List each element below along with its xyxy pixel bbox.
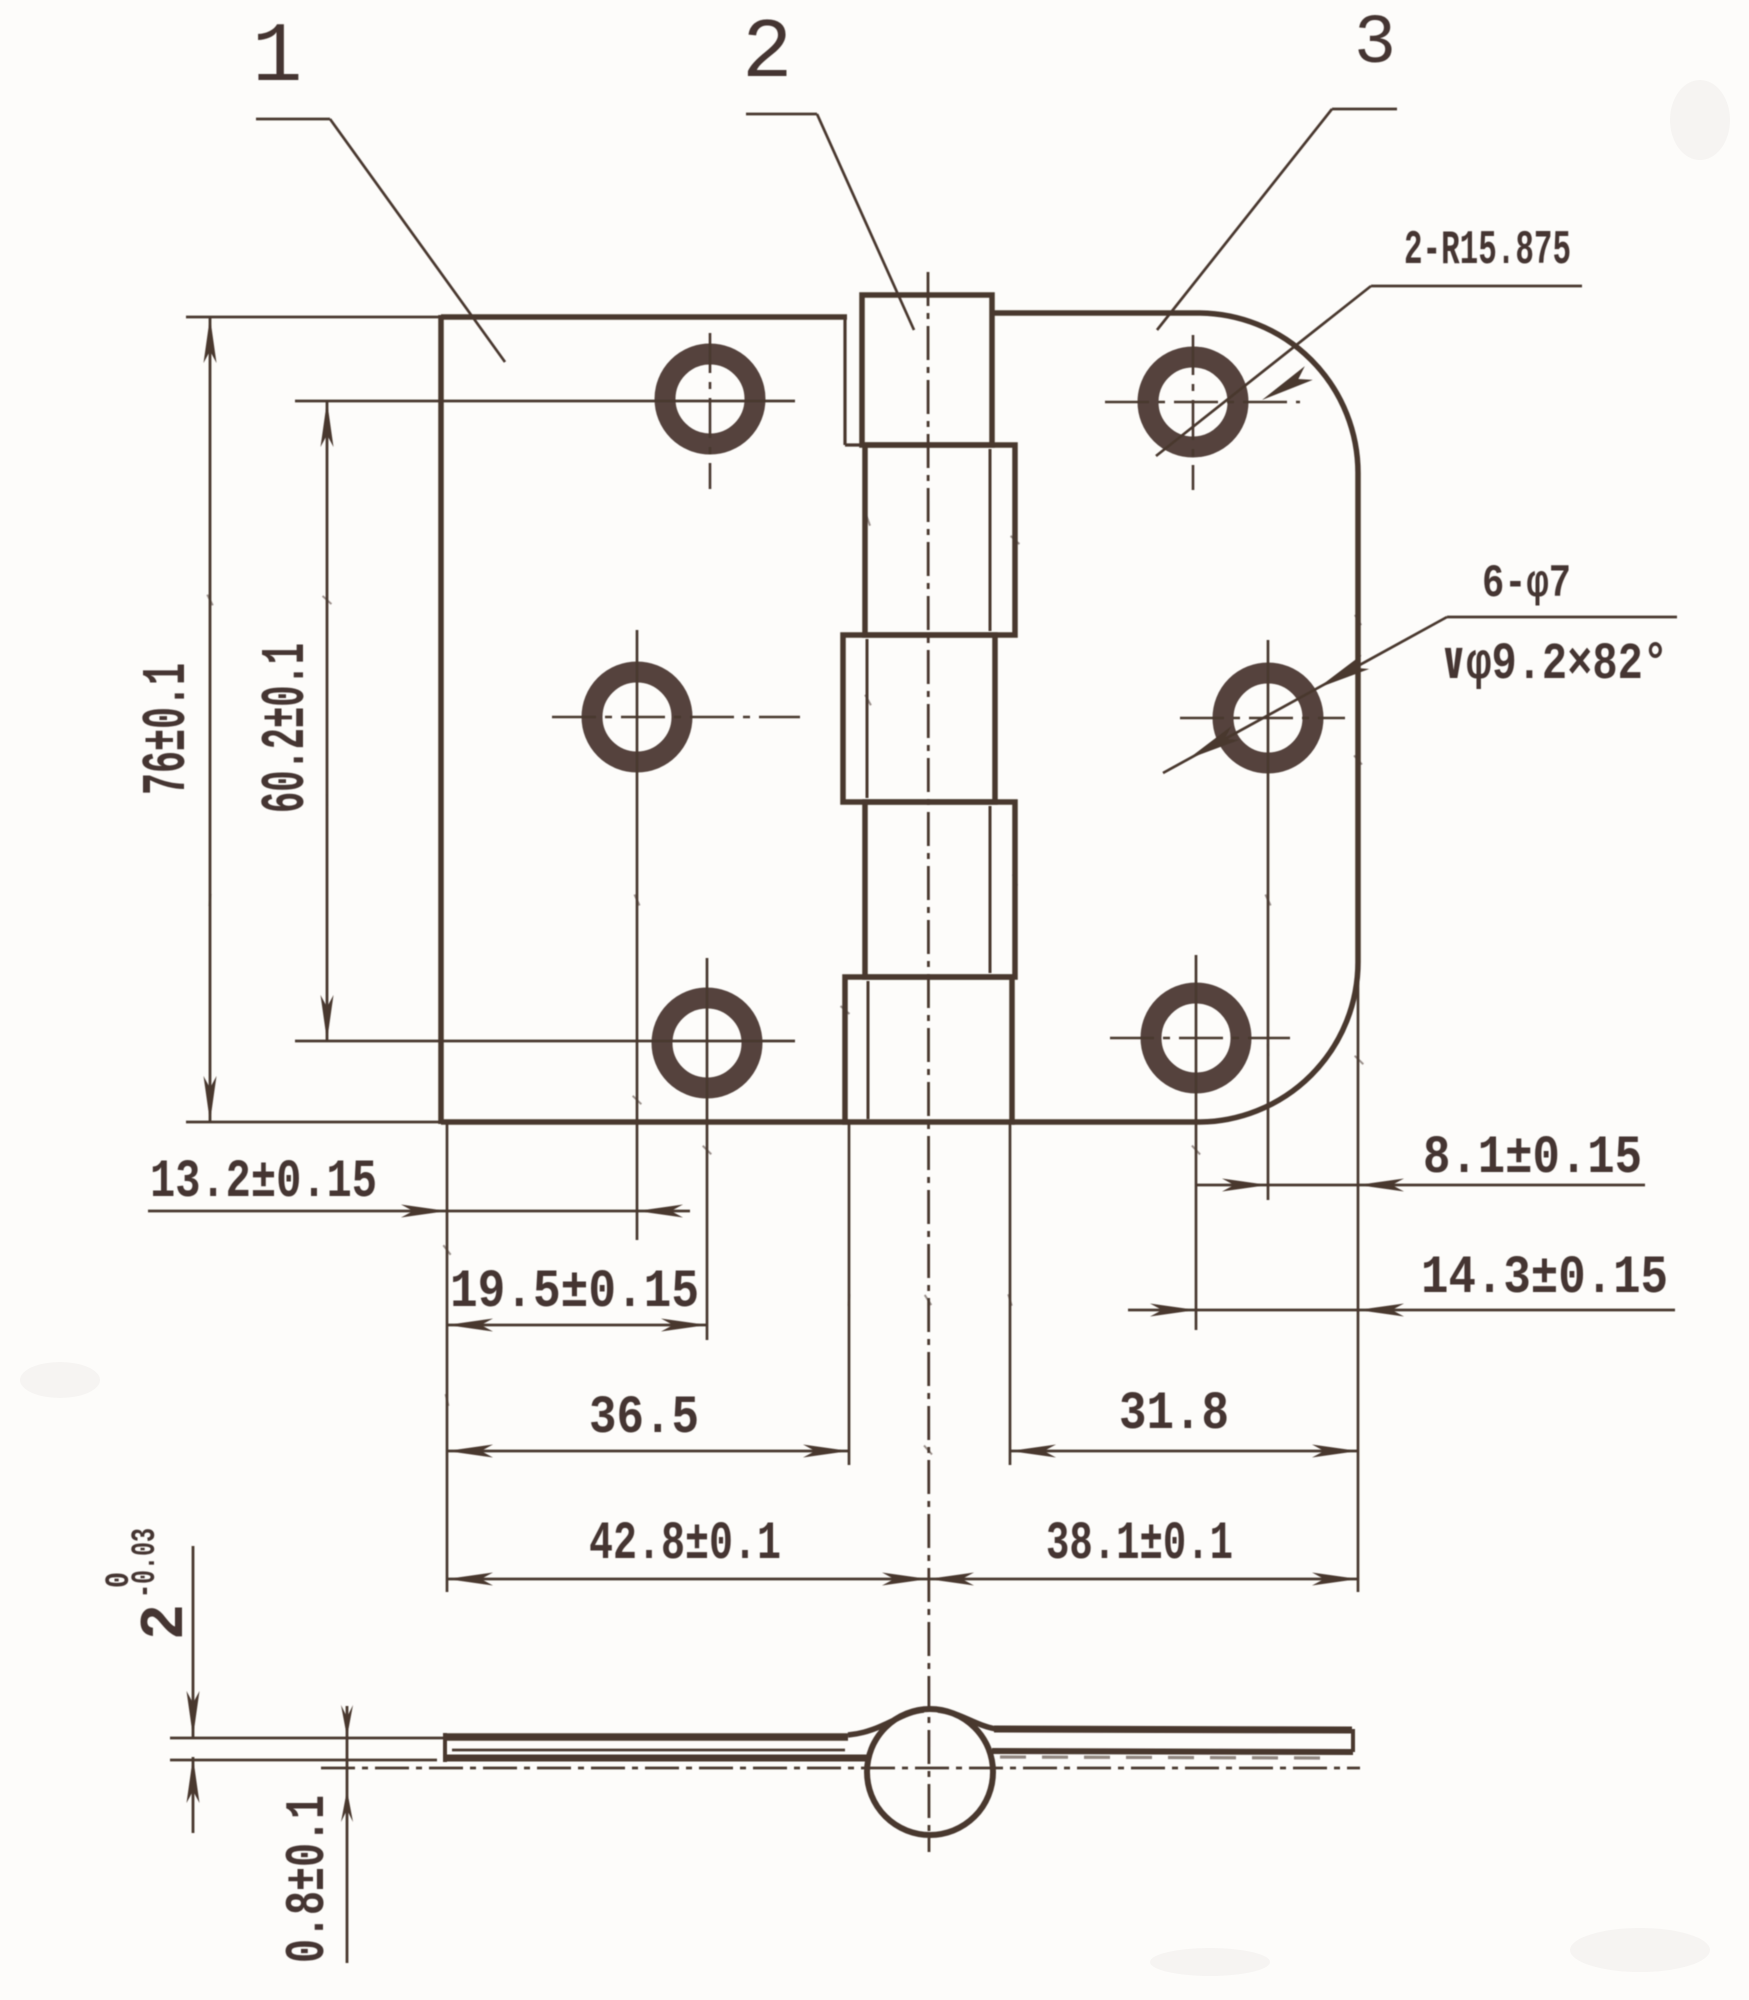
svg-text:13.2±0.15: 13.2±0.15 <box>150 1152 377 1213</box>
svg-text:∨φ9.2×82°: ∨φ9.2×82° <box>1441 635 1668 694</box>
svg-text:31.8: 31.8 <box>1119 1384 1229 1445</box>
svg-text:19.5±0.15: 19.5±0.15 <box>450 1262 699 1323</box>
svg-text:2-R15.875: 2-R15.875 <box>1404 224 1571 278</box>
svg-text:8.1±0.15: 8.1±0.15 <box>1423 1128 1642 1189</box>
svg-text:60.2±0.1: 60.2±0.1 <box>251 643 322 813</box>
svg-text:0: 0 <box>101 1572 139 1588</box>
svg-text:14.3±0.15: 14.3±0.15 <box>1421 1248 1668 1309</box>
svg-text:2: 2 <box>130 1604 201 1640</box>
svg-text:3: 3 <box>1354 5 1396 84</box>
svg-text:42.8±0.1: 42.8±0.1 <box>589 1514 781 1575</box>
svg-text:0.8±0.1: 0.8±0.1 <box>276 1795 340 1963</box>
svg-text:76±0.1: 76±0.1 <box>132 663 203 795</box>
svg-text:1: 1 <box>252 11 302 106</box>
svg-text:2: 2 <box>742 7 792 102</box>
svg-text:36.5: 36.5 <box>589 1388 699 1449</box>
svg-text:38.1±0.1: 38.1±0.1 <box>1046 1514 1233 1575</box>
svg-text:6-φ7: 6-φ7 <box>1482 558 1571 610</box>
